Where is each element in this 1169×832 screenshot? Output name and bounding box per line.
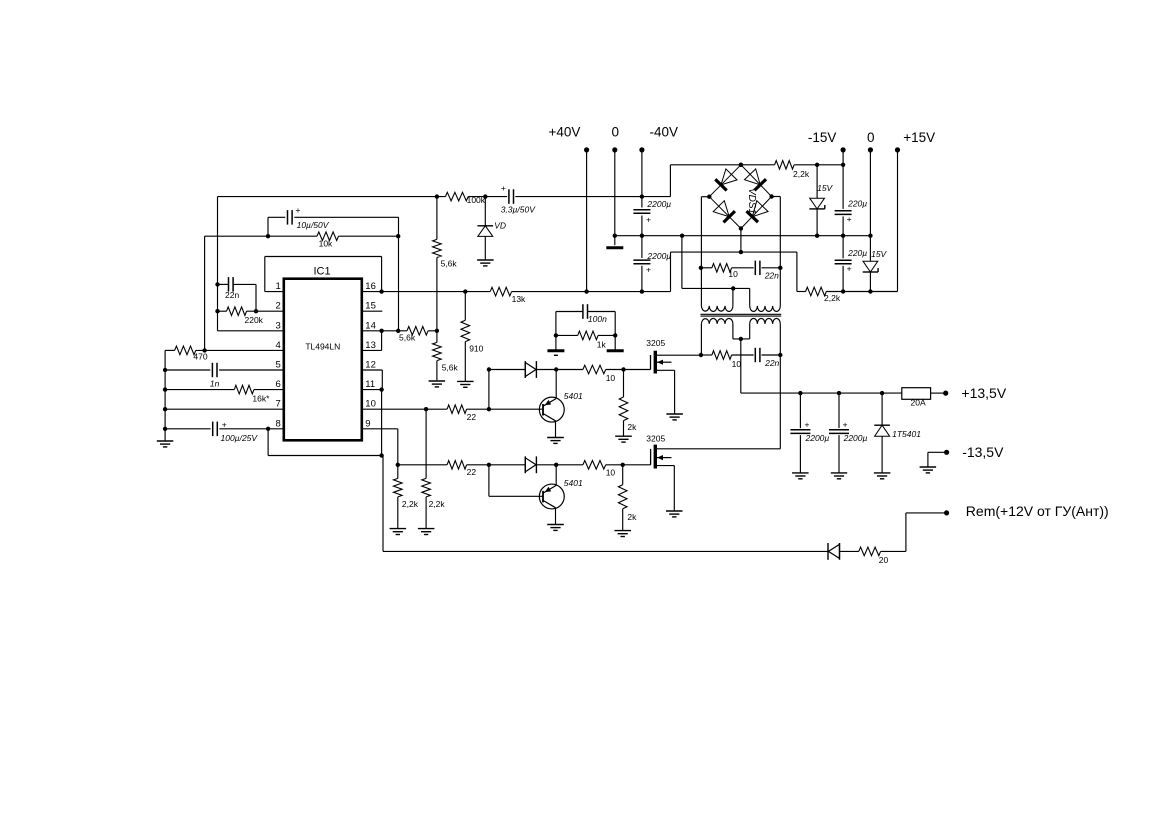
svg-text:22: 22 <box>467 467 477 477</box>
svg-text:-40V: -40V <box>650 125 679 140</box>
svg-text:10: 10 <box>365 399 376 410</box>
svg-text:10: 10 <box>732 359 742 369</box>
svg-text:100k: 100k <box>467 195 486 205</box>
svg-text:TL494LN: TL494LN <box>305 342 340 352</box>
svg-text:10: 10 <box>606 468 616 478</box>
svg-text:2,2k: 2,2k <box>793 169 810 179</box>
svg-text:5,6k: 5,6k <box>442 363 459 373</box>
svg-text:1: 1 <box>276 281 281 292</box>
svg-text:8: 8 <box>276 418 281 429</box>
svg-text:5401: 5401 <box>564 478 583 488</box>
svg-text:13: 13 <box>365 340 376 351</box>
svg-text:2200µ: 2200µ <box>646 199 671 209</box>
svg-text:220k: 220k <box>245 315 264 325</box>
svg-text:470: 470 <box>193 352 207 362</box>
svg-text:0: 0 <box>867 130 875 145</box>
svg-text:15: 15 <box>365 301 376 312</box>
svg-text:12: 12 <box>365 360 376 371</box>
svg-text:+40V: +40V <box>549 125 581 140</box>
svg-text:-15V: -15V <box>808 130 837 145</box>
svg-text:20A: 20A <box>911 398 926 408</box>
svg-text:VDS1: VDS1 <box>746 188 757 214</box>
svg-text:2k: 2k <box>627 512 637 522</box>
svg-text:-13,5V: -13,5V <box>962 444 1004 460</box>
svg-text:5: 5 <box>276 360 281 371</box>
svg-text:2200µ: 2200µ <box>805 433 830 443</box>
svg-text:910: 910 <box>469 344 483 354</box>
svg-text:220µ: 220µ <box>847 199 867 209</box>
svg-text:10k: 10k <box>319 239 333 249</box>
svg-text:2,2k: 2,2k <box>824 293 841 303</box>
svg-text:22n: 22n <box>764 358 779 368</box>
svg-text:VD: VD <box>494 220 506 230</box>
svg-text:100µ/25V: 100µ/25V <box>221 433 259 443</box>
svg-text:2,2k: 2,2k <box>429 499 446 509</box>
svg-text:7: 7 <box>276 399 281 410</box>
svg-text:100n: 100n <box>588 314 607 324</box>
svg-text:+: + <box>501 183 506 193</box>
svg-text:+15V: +15V <box>903 130 935 145</box>
svg-text:1T5401: 1T5401 <box>892 429 921 439</box>
svg-text:2200µ: 2200µ <box>843 433 868 443</box>
svg-text:15V: 15V <box>817 183 833 193</box>
svg-text:+: + <box>847 214 852 224</box>
svg-text:10: 10 <box>606 373 616 383</box>
svg-text:22n: 22n <box>764 271 779 281</box>
svg-text:3205: 3205 <box>646 434 665 444</box>
svg-text:+: + <box>843 420 848 430</box>
svg-text:16k*: 16k* <box>252 394 270 404</box>
svg-text:0: 0 <box>612 125 620 140</box>
svg-text:6: 6 <box>276 379 281 390</box>
svg-text:+: + <box>296 205 301 215</box>
svg-text:5401: 5401 <box>564 391 583 401</box>
svg-text:15V: 15V <box>871 249 887 259</box>
svg-text:5,6k: 5,6k <box>399 333 416 343</box>
svg-text:5,6k: 5,6k <box>441 259 458 269</box>
svg-text:2,2k: 2,2k <box>402 499 419 509</box>
svg-text:22n: 22n <box>225 290 239 300</box>
svg-text:13k: 13k <box>512 294 526 304</box>
svg-text:+: + <box>222 420 227 430</box>
svg-text:3: 3 <box>276 320 281 331</box>
svg-text:Rem(+12V от ГУ(Ант)): Rem(+12V от ГУ(Ант)) <box>966 503 1109 519</box>
svg-text:2k: 2k <box>627 422 637 432</box>
svg-text:20: 20 <box>879 555 889 565</box>
svg-text:IC1: IC1 <box>314 266 331 278</box>
svg-text:2: 2 <box>276 301 281 312</box>
svg-text:2200µ: 2200µ <box>646 251 671 261</box>
svg-text:+13,5V: +13,5V <box>961 385 1006 401</box>
svg-text:3205: 3205 <box>646 338 665 348</box>
svg-text:10µ/50V: 10µ/50V <box>297 220 330 230</box>
svg-text:+: + <box>847 264 852 274</box>
svg-text:1k: 1k <box>597 340 607 350</box>
svg-text:+: + <box>805 420 810 430</box>
svg-text:4: 4 <box>276 340 281 351</box>
svg-text:11: 11 <box>365 379 375 390</box>
svg-text:3,3µ/50V: 3,3µ/50V <box>501 205 537 215</box>
svg-text:1n: 1n <box>210 378 220 388</box>
svg-text:220µ: 220µ <box>847 248 867 258</box>
svg-text:14: 14 <box>365 320 376 331</box>
svg-text:10: 10 <box>728 269 738 279</box>
svg-text:+: + <box>646 214 651 224</box>
svg-text:16: 16 <box>365 281 376 292</box>
svg-text:9: 9 <box>365 418 370 429</box>
svg-text:+: + <box>646 264 651 274</box>
svg-text:22: 22 <box>467 412 477 422</box>
